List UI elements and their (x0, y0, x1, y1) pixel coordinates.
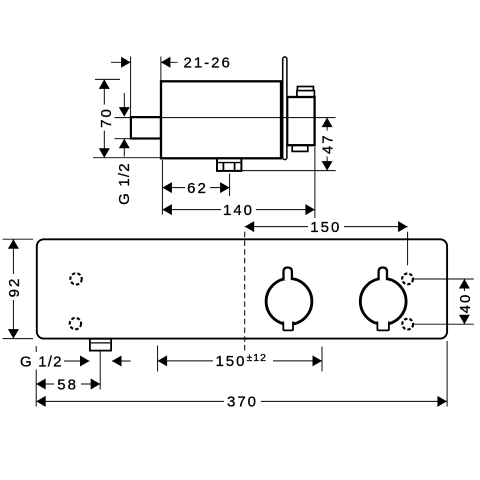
svg-text:±12: ±12 (247, 352, 267, 364)
svg-text:140: 140 (223, 202, 254, 219)
svg-text:58: 58 (57, 376, 78, 393)
svg-text:150: 150 (310, 219, 341, 236)
svg-text:92: 92 (6, 277, 23, 298)
svg-text:70: 70 (98, 107, 115, 128)
svg-text:G 1/2: G 1/2 (20, 353, 63, 370)
svg-text:62: 62 (187, 180, 208, 197)
svg-text:G 1/2: G 1/2 (116, 162, 133, 205)
svg-text:47: 47 (319, 133, 336, 154)
svg-text:150: 150 (215, 353, 246, 370)
svg-text:370: 370 (227, 394, 258, 411)
svg-text:40: 40 (457, 293, 474, 314)
svg-text:21-26: 21-26 (184, 55, 232, 72)
